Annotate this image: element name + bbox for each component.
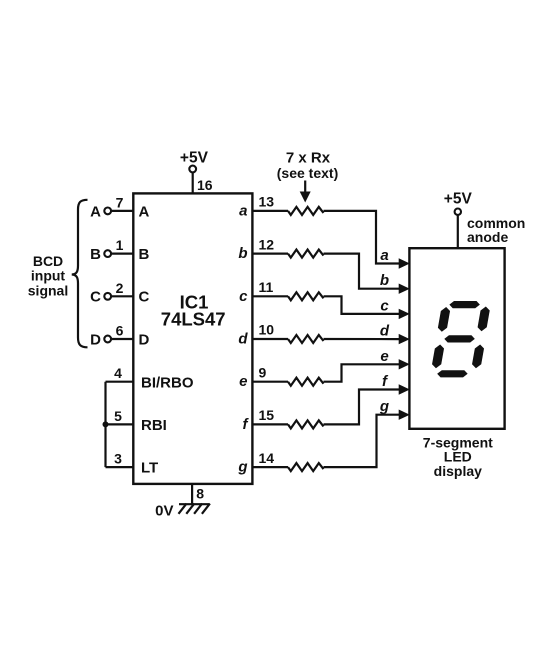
svg-text:+5V: +5V [444,190,473,207]
svg-text:13: 13 [259,194,275,210]
svg-text:5: 5 [114,408,122,424]
op-amp U1 : IC1 74LS47 body outline [133,193,252,484]
svg-text:c: c [380,297,389,314]
svg-text:e: e [380,348,388,365]
svg-text:14: 14 [259,450,275,466]
svg-text:a: a [380,247,388,264]
arrowhead display a [399,258,410,268]
7-segment LED display body [409,248,504,429]
svg-text:B: B [139,246,150,263]
svg-text:c: c [239,288,248,305]
input terminal C circle [104,293,111,300]
wire +5V to display [457,215,459,248]
svg-text:(see text): (see text) [277,165,338,181]
svg-text:+5V: +5V [180,150,209,167]
arrowhead display d [399,334,410,344]
arrowhead display c [399,309,410,319]
resistor Rx (segment e) [288,378,324,386]
svg-text:d: d [238,331,248,348]
svg-text:BI/RBO: BI/RBO [141,374,194,391]
arrowhead display g [399,410,410,420]
node +5V (IC supply) terminal circle [189,166,196,173]
node +5V (display anode) terminal circle [455,209,461,215]
svg-text:d: d [380,323,390,340]
svg-text:15: 15 [259,407,275,423]
wire RBI stub [106,423,134,425]
svg-text:74LS47: 74LS47 [161,309,226,330]
brace for BCD inputs [72,200,88,347]
svg-text:display: display [434,463,482,479]
junction dot at RBI [103,421,109,427]
svg-text:C: C [90,289,101,306]
svg-text:0V: 0V [155,502,173,519]
wire BI/RBO stub [106,381,134,383]
svg-text:A: A [90,203,101,220]
svg-text:7: 7 [116,194,124,210]
arrowhead display e [399,359,410,369]
svg-text:input: input [31,267,66,283]
svg-text:f: f [382,373,389,390]
svg-text:11: 11 [259,279,274,295]
wire pin 13 to resistor [252,210,288,212]
svg-text:10: 10 [259,322,275,338]
wire LT stub [106,466,134,468]
resistor Rx (segment c) [288,292,324,300]
wire input D to pin 6 [111,338,133,340]
wire input A to pin 7 [111,210,133,212]
svg-text:6: 6 [116,323,124,339]
svg-text:1: 1 [116,237,124,253]
svg-text:2: 2 [116,280,124,296]
svg-text:signal: signal [28,282,68,298]
svg-text:b: b [380,272,389,289]
wire resistor to display f [324,390,400,425]
arrowhead display b [399,284,410,294]
svg-text:e: e [239,373,247,390]
wire input C to pin 2 [111,295,133,297]
svg-text:9: 9 [259,364,267,380]
wire pin 10 to resistor [252,338,288,340]
input terminal D circle [104,336,111,343]
svg-text:B: B [90,246,101,263]
wire input B to pin 1 [111,253,133,255]
resistor Rx (segment a) [288,207,324,215]
svg-text:a: a [239,202,247,219]
wire arrow pointing to resistor [304,181,306,194]
svg-text:LT: LT [141,460,158,477]
svg-text:g: g [379,398,389,415]
wire resistor to display a [324,211,400,264]
svg-text:3: 3 [114,451,122,467]
svg-text:RBI: RBI [141,417,167,434]
svg-text:anode: anode [467,229,508,245]
resistor Rx (segment f) [288,420,324,428]
resistor Rx (segment b) [288,250,324,258]
wire pin 8 to ground [191,484,193,504]
input terminal A circle [104,208,111,215]
svg-text:16: 16 [197,177,213,193]
svg-text:8: 8 [196,486,204,502]
wire resistor to display d [324,338,400,340]
svg-text:12: 12 [259,236,275,252]
7-segment digit 8 graphic [429,301,492,377]
wire pin 15 to resistor [252,423,288,425]
wire pin 12 to resistor [252,253,288,255]
wire joining BI/RBO RBI LT [104,382,106,467]
svg-text:4: 4 [114,365,122,381]
wire pin 11 to resistor [252,295,288,297]
resistor Rx (segment g) [288,463,324,471]
svg-text:g: g [237,459,247,476]
resistor Rx (segment d) [288,335,324,343]
svg-text:A: A [139,203,150,220]
svg-text:b: b [238,245,247,262]
wire resistor to display c [324,296,400,314]
svg-text:C: C [139,289,150,306]
svg-text:D: D [90,331,101,348]
wire resistor to display g [324,415,400,467]
svg-text:f: f [243,416,250,433]
wire resistor to display b [324,254,400,289]
ground (0V chassis symbol) [179,504,210,514]
wire resistor to display e [324,364,400,381]
svg-text:D: D [139,331,150,348]
wire pin 14 to resistor [252,466,288,468]
arrowhead display f [399,384,410,394]
wire pin 16 to +5V [192,172,194,193]
wire pin 9 to resistor [252,381,288,383]
input terminal B circle [104,250,111,257]
